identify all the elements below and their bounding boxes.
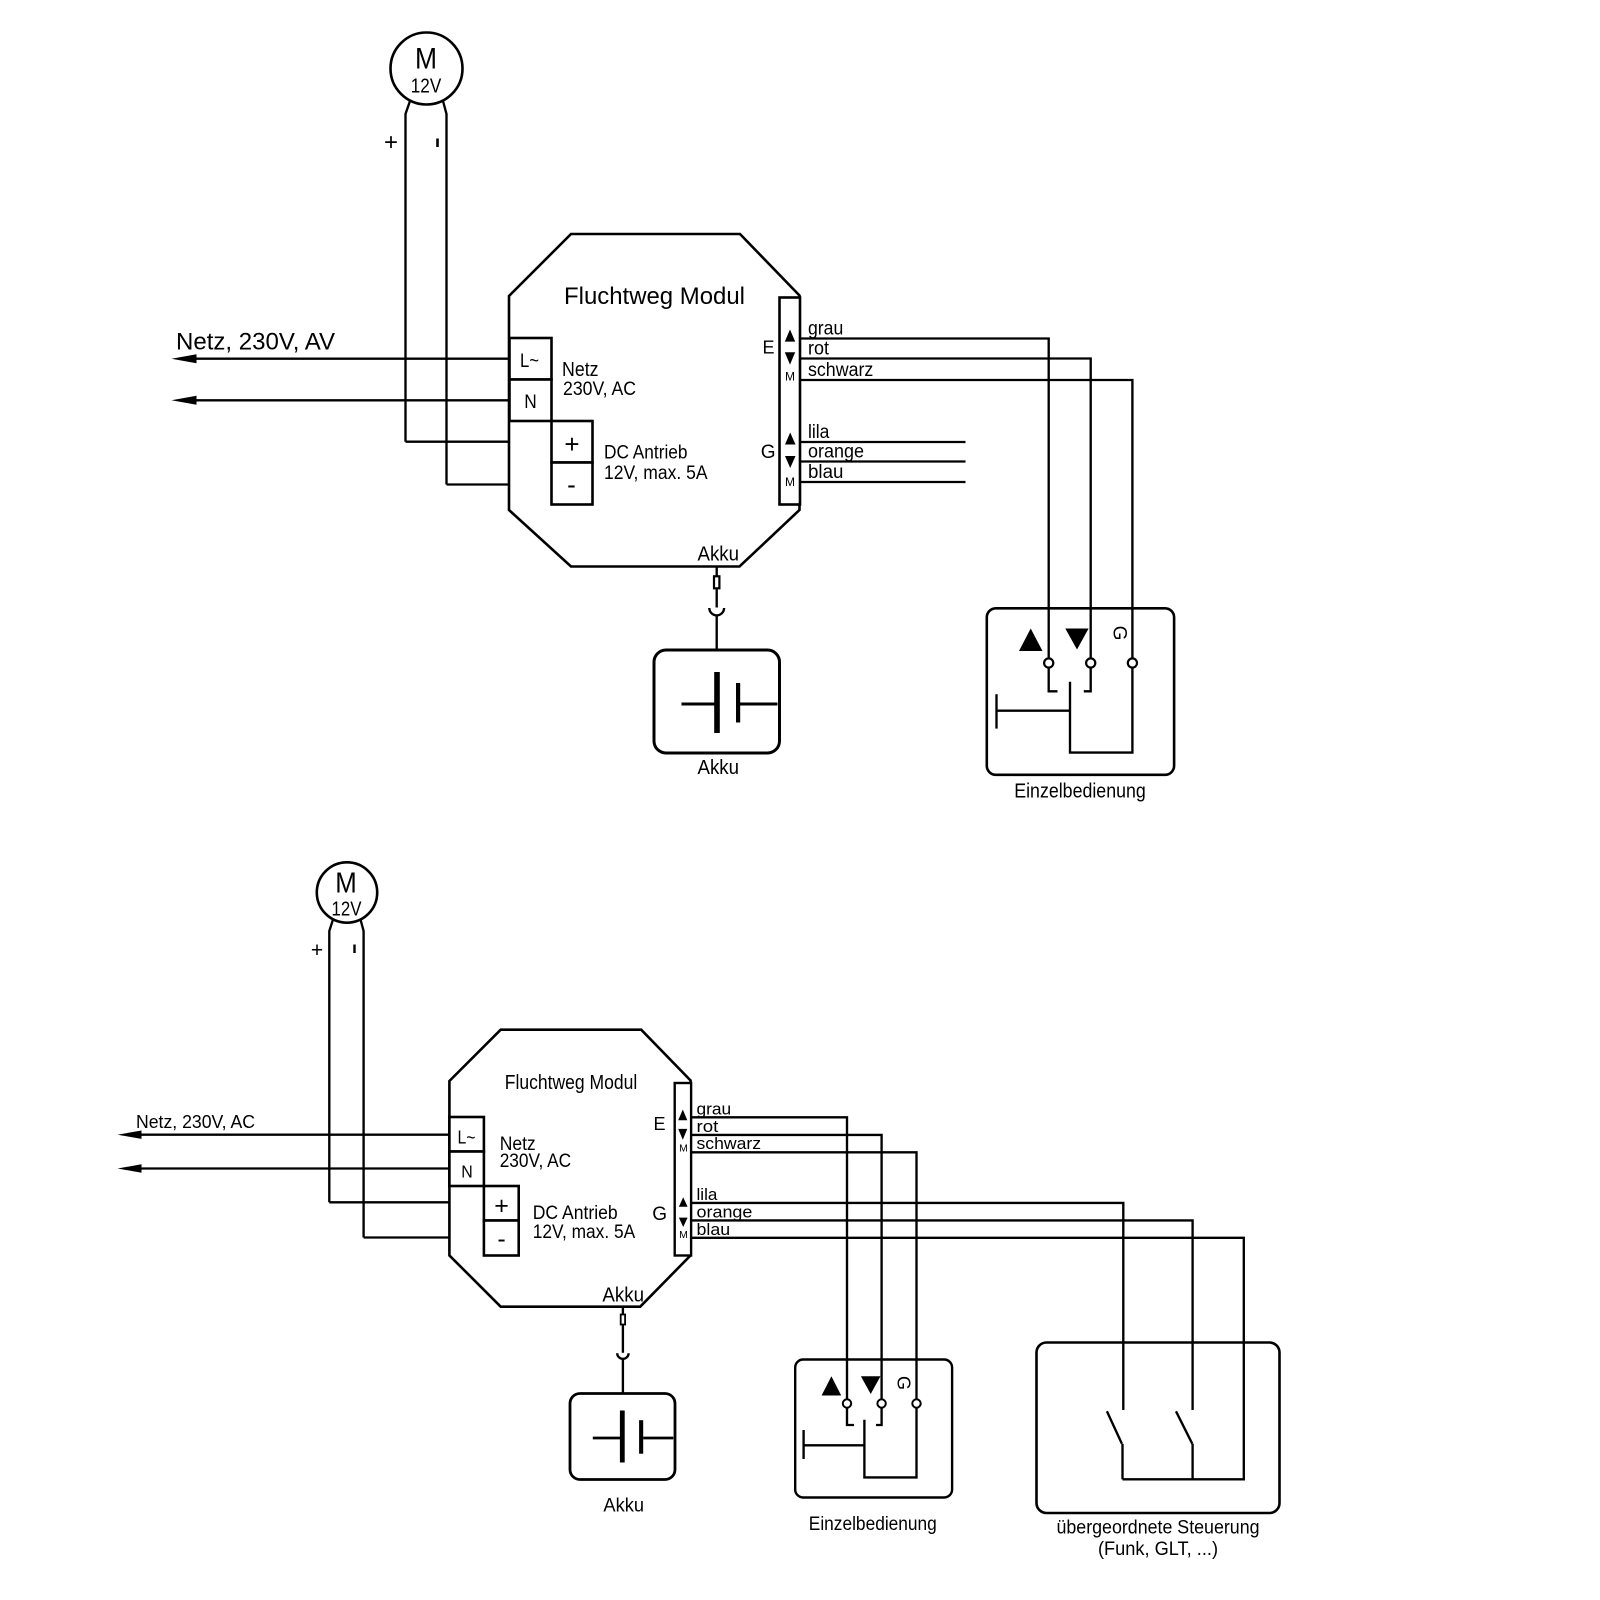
label DC Antrieb 12V, max. 5A (bottom) bbox=[533, 1203, 636, 1243]
wire motor minus to module edge (top) bbox=[447, 483, 510, 485]
svg-text:(Funk, GLT, ...): (Funk, GLT, ...) bbox=[1098, 1539, 1218, 1560]
svg-text:M: M bbox=[785, 370, 795, 384]
control unit uebergeordnete Steuerung box bbox=[1037, 1343, 1280, 1514]
svg-text:schwarz: schwarz bbox=[808, 360, 873, 381]
button arrow down (top Einzelbedienung) bbox=[1065, 629, 1088, 650]
svg-text:blau: blau bbox=[808, 462, 843, 483]
wire schwarz (bottom) bbox=[691, 1152, 917, 1399]
svg-text:blau: blau bbox=[697, 1220, 731, 1239]
terminal N (bottom) bbox=[449, 1152, 484, 1187]
svg-text:M: M bbox=[679, 1229, 688, 1241]
svg-text:L~: L~ bbox=[458, 1128, 476, 1148]
svg-text:N: N bbox=[524, 392, 537, 413]
svg-text:+: + bbox=[384, 129, 398, 156]
svg-text:L~: L~ bbox=[520, 351, 539, 372]
svg-text:grau: grau bbox=[697, 1099, 732, 1118]
svg-text:DC Antrieb: DC Antrieb bbox=[604, 443, 688, 464]
wire L~ to mains with arrow (top) bbox=[172, 354, 510, 363]
switch contact 1 (uebergeordnete Steuerung) bbox=[1107, 1343, 1123, 1480]
terminal L~ (top) bbox=[510, 338, 552, 380]
wire L~ to mains with arrow (bottom) bbox=[118, 1131, 450, 1139]
terminal + (top) bbox=[552, 421, 593, 463]
svg-text:230V, AC: 230V, AC bbox=[563, 379, 636, 400]
label Netz 230V, AC (bottom module) bbox=[500, 1134, 572, 1172]
svg-text:M: M bbox=[679, 1143, 688, 1155]
wire rot (top) bbox=[800, 359, 1091, 659]
contact stub 3 to common (bottom Einzelbedienung) bbox=[864, 1408, 916, 1478]
wire schwarz (top) bbox=[800, 380, 1132, 659]
wire grau (top) bbox=[800, 339, 1049, 659]
svg-text:230V, AC: 230V, AC bbox=[500, 1151, 572, 1172]
svg-text:E: E bbox=[653, 1114, 665, 1134]
svg-text:Einzelbedienung: Einzelbedienung bbox=[1014, 781, 1146, 803]
svg-text:DC Antrieb: DC Antrieb bbox=[533, 1203, 618, 1224]
pin arrow down E (bottom) bbox=[678, 1129, 687, 1140]
svg-text:Netz, 230V, AV: Netz, 230V, AV bbox=[176, 329, 335, 356]
svg-text:Fluchtweg Modul: Fluchtweg Modul bbox=[505, 1072, 638, 1094]
contact stub 3 to common (top Einzelbedienung) bbox=[1070, 668, 1132, 753]
terminal + (bottom) bbox=[484, 1186, 519, 1221]
svg-text:schwarz: schwarz bbox=[697, 1134, 762, 1153]
terminal circle 3 (bottom Einzelbedienung) bbox=[912, 1360, 920, 1408]
wire grau (bottom) bbox=[691, 1117, 847, 1399]
wire rot (bottom) bbox=[691, 1135, 882, 1399]
wire motor M2 minus lead bbox=[361, 920, 364, 1238]
wire N to mains with arrow (bottom) bbox=[118, 1164, 450, 1172]
svg-text:-: - bbox=[567, 470, 576, 500]
switch unit Einzelbedienung box (top) bbox=[987, 608, 1174, 775]
svg-text:grau: grau bbox=[808, 319, 843, 340]
svg-text:G: G bbox=[761, 442, 776, 463]
label - polarity motor M2 (tick) bbox=[353, 945, 355, 954]
svg-text:-: - bbox=[497, 1225, 505, 1253]
contact stub 2 (bottom Einzelbedienung) bbox=[876, 1408, 882, 1425]
terminal N (top) bbox=[510, 380, 552, 422]
connector strip E/G (top) bbox=[780, 298, 801, 505]
contact stub 2 (top Einzelbedienung) bbox=[1084, 668, 1091, 692]
button arrow up (bottom Einzelbedienung) bbox=[822, 1376, 842, 1395]
svg-text:G: G bbox=[1109, 626, 1130, 641]
svg-text:12V: 12V bbox=[332, 899, 363, 921]
svg-text:Fluchtweg Modul: Fluchtweg Modul bbox=[564, 283, 745, 310]
svg-text:Akku: Akku bbox=[698, 757, 740, 779]
switch contact 2 (uebergeordnete Steuerung) bbox=[1176, 1343, 1193, 1480]
svg-text:12V, max. 5A: 12V, max. 5A bbox=[533, 1222, 636, 1243]
wire Akku plug connector (bottom) bbox=[617, 1307, 628, 1394]
svg-text:M: M bbox=[785, 475, 795, 489]
motor M2 12V bbox=[317, 862, 377, 922]
pin arrow up E (bottom) bbox=[678, 1110, 687, 1121]
terminal L~ (bottom) bbox=[449, 1117, 484, 1152]
module octagon Fluchtweg Modul (bottom) bbox=[449, 1030, 690, 1307]
svg-text:Akku: Akku bbox=[602, 1285, 644, 1307]
label DC Antrieb 12V, max. 5A (top) bbox=[604, 443, 708, 484]
wire motor plus to module edge (bottom) bbox=[329, 1201, 449, 1203]
svg-text:+: + bbox=[564, 429, 579, 459]
svg-text:Einzelbedienung: Einzelbedienung bbox=[809, 1514, 937, 1535]
button arrow down (bottom Einzelbedienung) bbox=[861, 1376, 881, 1394]
svg-text:12V: 12V bbox=[411, 76, 442, 98]
svg-text:N: N bbox=[461, 1162, 473, 1182]
terminal circle 2 (top Einzelbedienung) bbox=[1086, 608, 1095, 667]
pin arrow down E (top) bbox=[785, 352, 795, 364]
pin arrow down G (top) bbox=[785, 456, 796, 468]
svg-text:G: G bbox=[894, 1376, 914, 1390]
label - polarity motor M1 (tick) bbox=[436, 139, 439, 148]
svg-text:M: M bbox=[415, 43, 437, 76]
wire orange (top) bbox=[800, 460, 966, 462]
svg-text:orange: orange bbox=[808, 442, 864, 463]
svg-text:Akku: Akku bbox=[603, 1495, 644, 1516]
svg-text:lila: lila bbox=[697, 1185, 718, 1204]
contact stub 1 (top Einzelbedienung) bbox=[1049, 668, 1058, 692]
wire N to mains with arrow (top) bbox=[172, 396, 510, 405]
actuator handle (bottom Einzelbedienung) bbox=[804, 1430, 865, 1459]
wire motor M1 plus lead bbox=[406, 101, 411, 442]
wire common bottom (uebergeordnete Steuerung) bbox=[1123, 1343, 1244, 1480]
terminal - (bottom) bbox=[484, 1221, 519, 1256]
svg-text:+: + bbox=[494, 1192, 509, 1220]
wire motor plus to module edge (top) bbox=[406, 441, 510, 443]
module octagon Fluchtweg Modul (top) bbox=[509, 234, 800, 567]
wire orange (bottom) bbox=[691, 1220, 1193, 1409]
wire motor M1 minus lead bbox=[443, 101, 447, 485]
terminal circle 2 (bottom Einzelbedienung) bbox=[877, 1360, 885, 1408]
actuator handle (top Einzelbedienung) bbox=[997, 694, 1071, 728]
svg-text:orange: orange bbox=[697, 1202, 753, 1221]
svg-text:E: E bbox=[762, 338, 774, 358]
wire Akku plug connector (top) bbox=[709, 567, 724, 651]
wire blau (top) bbox=[800, 481, 966, 483]
pin arrow up E (top) bbox=[785, 330, 795, 342]
switch unit Einzelbedienung box (bottom) bbox=[795, 1360, 952, 1498]
wire lila (bottom) bbox=[691, 1203, 1123, 1410]
terminal circle 1 (bottom Einzelbedienung) bbox=[843, 1360, 851, 1408]
battery Akku (top) bbox=[654, 650, 780, 753]
wire blau (bottom) bbox=[691, 1238, 1244, 1480]
svg-text:Akku: Akku bbox=[698, 544, 740, 566]
contact stub 1 (bottom Einzelbedienung) bbox=[847, 1408, 854, 1425]
svg-text:M: M bbox=[335, 868, 357, 900]
battery Akku (bottom) bbox=[570, 1394, 675, 1480]
wire motor minus to module edge (bottom) bbox=[364, 1236, 450, 1238]
connector strip E/G (bottom) bbox=[675, 1083, 691, 1256]
svg-text:12V, max. 5A: 12V, max. 5A bbox=[604, 463, 708, 484]
label Netz 230V, AC (top) bbox=[562, 359, 636, 400]
motor M1 12V bbox=[391, 33, 463, 105]
terminal - (top) bbox=[552, 463, 593, 505]
svg-text:Netz, 230V, AC: Netz, 230V, AC bbox=[136, 1111, 255, 1132]
svg-text:rot: rot bbox=[808, 339, 830, 360]
pin arrow down G (bottom) bbox=[679, 1218, 688, 1227]
pin arrow up G (bottom) bbox=[679, 1197, 688, 1206]
terminal circle 3 (top Einzelbedienung) bbox=[1128, 608, 1137, 667]
svg-text:+: + bbox=[311, 939, 323, 962]
svg-text:Netz: Netz bbox=[562, 359, 599, 381]
button arrow up (top Einzelbedienung) bbox=[1019, 629, 1043, 652]
wire lila (top) bbox=[800, 441, 966, 443]
svg-text:übergeordnete Steuerung: übergeordnete Steuerung bbox=[1057, 1518, 1260, 1539]
terminal circle 1 (top Einzelbedienung) bbox=[1044, 608, 1053, 667]
svg-text:lila: lila bbox=[808, 422, 830, 443]
svg-text:G: G bbox=[652, 1204, 667, 1225]
wire motor M2 plus lead bbox=[329, 920, 333, 1203]
pin arrow up G (top) bbox=[785, 433, 796, 445]
